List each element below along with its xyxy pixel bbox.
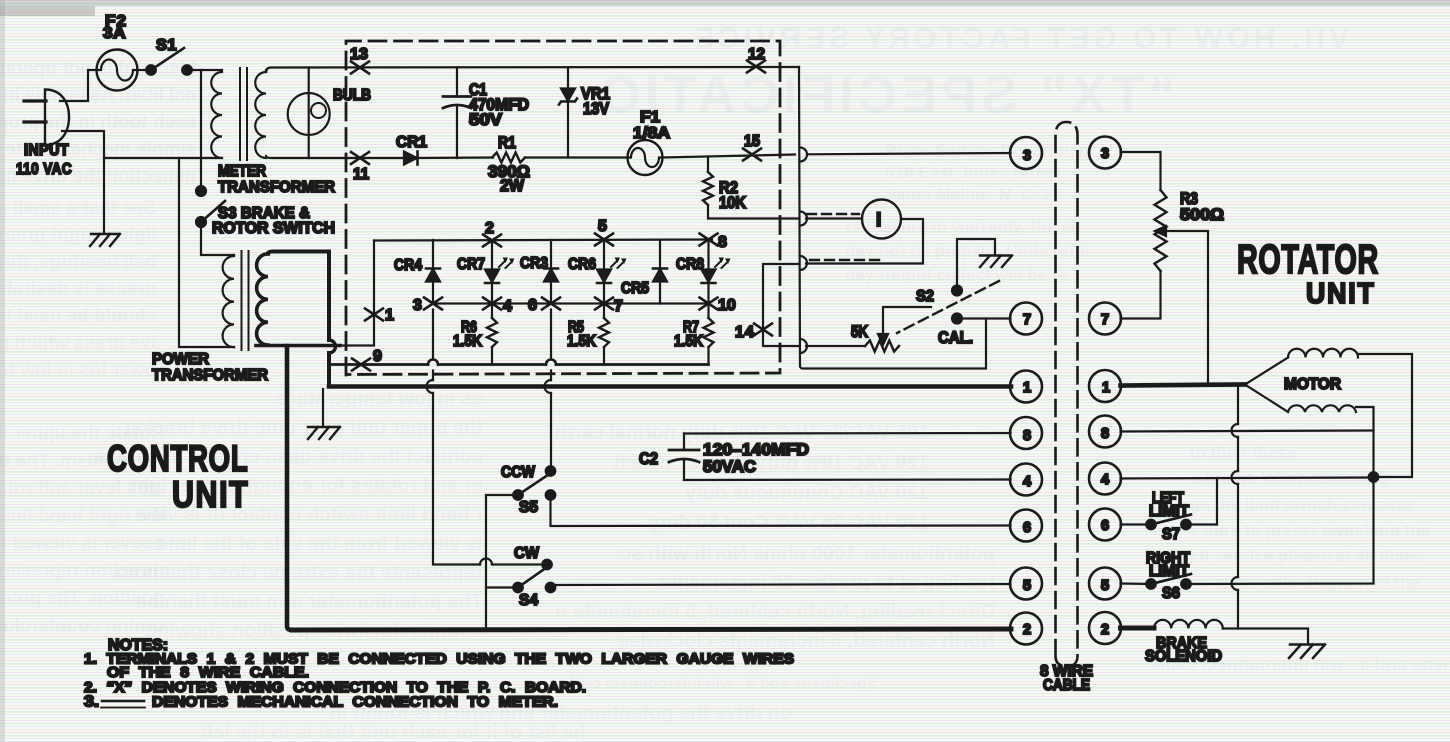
heavy bus terminal 1 right xyxy=(1121,385,1246,386)
switch S2 xyxy=(952,286,962,324)
wire terminal 8R to motor xyxy=(1121,431,1374,432)
heavy bus terminal 1 left xyxy=(329,384,1011,389)
resistor R2 xyxy=(703,156,799,218)
svg-text:3: 3 xyxy=(1023,148,1031,164)
ground input xyxy=(90,234,120,246)
svg-text:METER: METER xyxy=(218,163,266,180)
pcb node X3 xyxy=(424,298,442,310)
wire CCW vertical from X6 xyxy=(550,310,552,467)
svg-text:CW: CW xyxy=(514,545,540,562)
svg-text:3: 3 xyxy=(1101,146,1109,162)
wire meter left lead xyxy=(806,217,862,219)
hop bottom rail over CW vertical xyxy=(428,360,438,365)
svg-text:CR4: CR4 xyxy=(394,257,422,274)
label 1 xyxy=(385,307,394,324)
hop common vertical over 8 wire xyxy=(1232,424,1239,437)
resistor R5 xyxy=(599,304,609,365)
svg-text:8: 8 xyxy=(1023,428,1031,444)
ground stub bus1 xyxy=(322,389,324,427)
svg-text:6: 6 xyxy=(1023,520,1031,536)
label 13 xyxy=(350,46,368,63)
label CCW S5 xyxy=(501,464,538,516)
potentiometer 5K xyxy=(806,341,899,352)
svg-text:4: 4 xyxy=(1023,474,1031,490)
svg-text:5: 5 xyxy=(598,218,607,235)
hop CCW vertical over bus1 xyxy=(545,380,552,393)
brake solenoid coil xyxy=(1154,620,1308,644)
label I xyxy=(876,210,881,231)
svg-text:I: I xyxy=(876,210,881,231)
wire diode board top rail xyxy=(374,240,712,241)
svg-text:12: 12 xyxy=(748,46,765,63)
hop right vertical over 15 wire xyxy=(800,148,807,162)
ghost center-bottom text xyxy=(555,418,929,538)
svg-text:POWER: POWER xyxy=(152,351,209,368)
motor windings xyxy=(1245,349,1412,477)
heavy stub terminal 2R xyxy=(1121,626,1155,631)
wire terminal3R to R3 xyxy=(1121,152,1161,190)
svg-text:CAL.: CAL. xyxy=(938,329,973,347)
label F1 1/8A xyxy=(633,109,670,142)
label CR4 xyxy=(394,257,422,274)
wire terminal 5R to S6 xyxy=(1121,582,1152,585)
pcb node X5 xyxy=(595,234,613,246)
terminal circle R5t xyxy=(1089,568,1121,600)
ground S2 xyxy=(980,256,1012,268)
svg-text:8: 8 xyxy=(718,234,727,251)
wire plug neutral down xyxy=(62,131,104,232)
note 1 xyxy=(84,651,794,682)
label CR5 xyxy=(621,280,649,297)
cable capsule dashed xyxy=(1056,122,1078,667)
hop common vertical over 4 wire xyxy=(1232,471,1239,484)
label S2 xyxy=(916,288,934,305)
svg-text:2W: 2W xyxy=(500,177,524,195)
wire diode board bottom rail xyxy=(331,363,709,366)
svg-text:F1: F1 xyxy=(640,109,660,126)
label F2 3A xyxy=(103,13,127,42)
ghost bleed-through big title xyxy=(595,64,1175,126)
wire S5 common to return vertical xyxy=(486,495,518,628)
label INPUT 110 VAC xyxy=(16,142,72,178)
svg-text:120–140MFD: 120–140MFD xyxy=(703,441,809,459)
label R3 500ohm xyxy=(1180,190,1224,224)
meter transformer T2 primary xyxy=(211,70,222,158)
terminal circle R8 xyxy=(1089,416,1121,448)
svg-text:2: 2 xyxy=(485,220,494,237)
wire diode board middle rail xyxy=(433,302,709,304)
label R1 390ohm 2W xyxy=(488,134,530,195)
svg-text:1: 1 xyxy=(1102,380,1110,396)
label LEFT LIMIT S7 xyxy=(1149,490,1190,543)
terminal circle L4 xyxy=(1010,464,1042,496)
svg-text:110 VAC: 110 VAC xyxy=(16,161,72,178)
svg-text:S2: S2 xyxy=(916,288,934,305)
svg-text:CR1: CR1 xyxy=(396,134,427,151)
heavy bus terminal 2 left xyxy=(292,629,1011,630)
zener VR1 xyxy=(559,68,577,158)
svg-text:500Ω: 500Ω xyxy=(1180,206,1224,224)
pcb node X7 xyxy=(595,298,613,310)
pcb node X10 xyxy=(700,298,718,310)
label CONTROL UNIT xyxy=(107,437,249,516)
wire S2 ground branch xyxy=(957,239,995,286)
label 7 xyxy=(614,298,623,315)
terminal circle L1 xyxy=(1010,371,1042,403)
meter M1 xyxy=(862,200,901,239)
label 6 xyxy=(528,297,537,314)
label S1 xyxy=(156,37,177,54)
terminal circle R2t xyxy=(1089,612,1121,644)
svg-text:6: 6 xyxy=(528,297,537,314)
svg-text:TRANSFORMER: TRANSFORMER xyxy=(218,179,335,196)
label 4 xyxy=(503,298,512,315)
svg-text:7: 7 xyxy=(614,298,623,315)
wire F2 to S1 xyxy=(137,69,150,71)
label 5 xyxy=(598,218,607,235)
svg-text:C2: C2 xyxy=(639,450,658,468)
terminal circle R6t xyxy=(1089,509,1121,541)
svg-text:1.5K: 1.5K xyxy=(674,333,703,350)
pcb node X13 xyxy=(351,62,369,74)
label MOTOR xyxy=(1284,376,1341,393)
label C2 120-140MFD 50VAC xyxy=(639,441,809,476)
terminal circle R4 xyxy=(1089,463,1121,495)
PC board dashed border xyxy=(346,41,780,375)
svg-text:13V: 13V xyxy=(583,100,609,118)
svg-text:LIMIT: LIMIT xyxy=(1149,503,1190,520)
label 11 xyxy=(353,166,369,183)
terminal circle L5 xyxy=(1010,568,1042,600)
note 3 xyxy=(84,694,558,711)
pcb node X14 xyxy=(754,324,772,336)
wire X1 branch from secondary plate xyxy=(338,241,374,346)
label CR7 xyxy=(457,256,485,273)
svg-text:5: 5 xyxy=(1101,578,1109,594)
wire secondary top rail xyxy=(266,67,799,72)
switch S6 xyxy=(1146,574,1191,589)
AC plug P1 xyxy=(24,90,69,146)
svg-text:SOLENOID: SOLENOID xyxy=(1145,648,1222,665)
label 5K xyxy=(851,323,868,341)
svg-text:6: 6 xyxy=(1101,518,1109,534)
svg-text:S5: S5 xyxy=(519,499,538,516)
pcb node X12 xyxy=(747,61,765,73)
switch S4 CW xyxy=(513,560,555,593)
wire meter right loop xyxy=(806,219,923,264)
wiper arrow R3 xyxy=(1155,226,1166,236)
power transformer T1 secondary (heavy) xyxy=(257,254,268,345)
wire CAL contact to terminal 7 xyxy=(957,317,1011,319)
svg-text:3.: 3. xyxy=(84,694,99,711)
led CR7 xyxy=(485,240,499,304)
svg-text:CR6: CR6 xyxy=(568,256,596,273)
svg-text:15: 15 xyxy=(744,133,760,150)
wire S1 to meter transformer primary xyxy=(187,69,222,71)
svg-text:1/8A: 1/8A xyxy=(633,125,670,142)
svg-text:3: 3 xyxy=(413,297,422,314)
terminal circle L8 xyxy=(1010,417,1042,449)
label R7 1.5K xyxy=(674,319,703,350)
hop right vertical over R2 wire xyxy=(800,212,807,226)
wire terminal 4R to motor node xyxy=(1121,478,1374,479)
label S3 BRAKE & ROTOR SWITCH xyxy=(212,205,335,237)
svg-text:CR7: CR7 xyxy=(457,256,485,273)
switch S7 xyxy=(1146,515,1191,530)
svg-text:INPUT: INPUT xyxy=(24,142,69,159)
resistor R7 xyxy=(704,304,714,365)
wire rotator common vertical xyxy=(1237,385,1239,629)
fuse F1 xyxy=(628,140,663,175)
terminal circle R1 xyxy=(1089,370,1121,402)
svg-text:CCW: CCW xyxy=(501,464,536,481)
wire secondary bottom plate heavy xyxy=(256,344,340,348)
ghost left margin paragraphs xyxy=(0,55,196,190)
svg-text:ROTOR SWITCH: ROTOR SWITCH xyxy=(212,220,335,237)
note 2 xyxy=(84,679,586,696)
wire input lower run xyxy=(104,157,222,159)
svg-text:1: 1 xyxy=(385,307,394,324)
svg-text:7: 7 xyxy=(1101,312,1109,328)
svg-text:UNIT: UNIT xyxy=(1306,277,1376,309)
svg-text:10K: 10K xyxy=(719,194,746,212)
terminal circle R7 xyxy=(1089,303,1121,335)
svg-text:13: 13 xyxy=(350,46,368,63)
hop secondary vertical over bottom plate xyxy=(329,340,336,353)
pcb node X6 xyxy=(542,298,560,310)
wire S6 to motor node xyxy=(1186,477,1374,584)
svg-text:ROTATOR: ROTATOR xyxy=(1237,237,1379,282)
svg-text:1.5K: 1.5K xyxy=(453,333,482,350)
wire cal loop bottom xyxy=(800,319,986,369)
led arrows CR6 xyxy=(611,258,627,269)
wire 5K wiper xyxy=(883,307,931,336)
svg-text:3A: 3A xyxy=(103,25,126,42)
svg-text:10: 10 xyxy=(718,297,736,314)
svg-text:S4: S4 xyxy=(519,592,538,609)
pcb node X9 xyxy=(352,359,370,371)
wire plug hot to F2 xyxy=(60,70,96,101)
ghost bleed-through headline xyxy=(690,22,1349,56)
wire secondary vertical heavy to bus1 xyxy=(327,353,331,385)
terminal circle L6 xyxy=(1010,510,1042,542)
pcb connector block X14 xyxy=(763,264,799,346)
label BULB xyxy=(333,87,371,104)
svg-text:S7: S7 xyxy=(1162,526,1180,543)
meter transformer T2 secondary xyxy=(255,70,266,158)
capacitor C1 xyxy=(443,68,471,159)
terminal circle L7 xyxy=(1010,303,1042,335)
wire secondary top heavy to vertical xyxy=(268,252,329,341)
mech dashes meter upper xyxy=(807,213,859,215)
power transformer core xyxy=(242,251,249,350)
label 2 xyxy=(485,220,494,237)
wire input to primary bottom xyxy=(179,158,234,347)
switch S1 xyxy=(146,48,192,75)
wire R3 bottom to terminal 7R xyxy=(1121,271,1161,319)
resistor R6 xyxy=(487,304,497,365)
hop right vertical over meter dash wire xyxy=(800,256,807,270)
svg-text:1.5K: 1.5K xyxy=(567,333,596,350)
diode CR1 xyxy=(404,152,418,165)
wire S4 common to return vertical xyxy=(486,586,518,588)
fuse F2 xyxy=(97,50,138,91)
label 14 xyxy=(735,324,755,341)
pcb node X8 xyxy=(700,234,718,246)
wire S4 throw to terminal 5 xyxy=(551,584,1011,588)
svg-text:CR3: CR3 xyxy=(520,255,548,272)
label R6 1.5K xyxy=(453,319,482,350)
svg-text:9: 9 xyxy=(373,348,382,365)
label CR3 xyxy=(520,255,548,272)
label CAL. xyxy=(938,329,973,347)
bulb DS1 xyxy=(288,68,330,159)
svg-text:50V: 50V xyxy=(469,111,502,129)
svg-text:1: 1 xyxy=(1023,380,1031,396)
wire R3 wiper to bus xyxy=(1165,231,1208,384)
svg-text:2: 2 xyxy=(1023,622,1031,638)
svg-text:DENOTES MECHANICAL CONNECTION: DENOTES MECHANICAL CONNECTION TO METER. xyxy=(152,694,558,711)
svg-text:CABLE: CABLE xyxy=(1043,677,1090,694)
wire S1 node down to S3 xyxy=(200,70,202,189)
label R2 10K xyxy=(719,179,746,212)
pcb node X15 xyxy=(743,149,761,161)
svg-text:CR5: CR5 xyxy=(621,280,649,297)
label CR1 xyxy=(396,134,427,151)
label 3 xyxy=(413,297,422,314)
wire terminal 8 rail xyxy=(684,432,1011,435)
pcb node X1 xyxy=(365,309,383,321)
ghost right column address xyxy=(885,140,1095,206)
label ROTATOR UNIT xyxy=(1237,237,1379,309)
switch S5 CCW xyxy=(513,466,555,500)
wire CR1 to F1 xyxy=(418,156,629,159)
label 8 WIRE CABLE xyxy=(1040,663,1093,694)
label 12 xyxy=(748,46,765,63)
label CW S4 xyxy=(514,545,540,609)
terminal circle R3 xyxy=(1089,137,1121,169)
svg-text:S6: S6 xyxy=(1162,585,1180,602)
led CR8 xyxy=(702,240,716,304)
ground brake xyxy=(1289,645,1325,659)
switch S2 arm dashed xyxy=(897,281,999,333)
wire terminal 4 rail xyxy=(684,478,1011,481)
svg-text:14: 14 xyxy=(735,324,755,341)
wire top rail corner down right side xyxy=(799,67,800,367)
pcb node X4 xyxy=(483,298,501,310)
svg-text:UNIT: UNIT xyxy=(172,474,249,516)
svg-text:5K: 5K xyxy=(851,323,868,341)
power transformer T1 primary xyxy=(223,255,234,347)
capacitor C2 xyxy=(669,434,699,481)
diode CR5 xyxy=(653,240,667,304)
wire S3 to power transformer primary xyxy=(201,222,234,255)
label 10 xyxy=(718,297,736,314)
ghost right lower column xyxy=(1190,440,1430,596)
potentiometer R3 xyxy=(1155,190,1167,271)
pcb node X2 xyxy=(483,235,501,247)
led arrows CR8 xyxy=(715,258,731,269)
label RIGHT LIMIT S6 xyxy=(1146,550,1190,602)
wire S7 branch vertical xyxy=(1190,478,1217,525)
svg-text:BULB: BULB xyxy=(333,87,371,104)
led CR6 xyxy=(597,240,611,304)
label BRAKE SOLENOID xyxy=(1145,635,1222,665)
svg-text:LIMIT: LIMIT xyxy=(1149,563,1190,580)
ground bus1 xyxy=(308,427,340,439)
svg-text:CONTROL: CONTROL xyxy=(107,437,248,479)
svg-text:CR8: CR8 xyxy=(676,256,704,273)
svg-text:8: 8 xyxy=(1101,426,1109,442)
wire secondary bottom vertical heavy to bus2 xyxy=(287,346,292,630)
label METER TRANSFORMER xyxy=(218,163,335,196)
wire S5 throw to terminal 6 xyxy=(551,495,1011,526)
hop CW vertical over bus1 xyxy=(427,380,434,393)
svg-text:50VAC: 50VAC xyxy=(703,458,756,476)
svg-text:S1: S1 xyxy=(156,37,177,54)
svg-text:5: 5 xyxy=(1023,578,1031,594)
wiper arrow 5K xyxy=(878,334,888,345)
label CR8 xyxy=(676,256,704,273)
diode CR3 xyxy=(544,240,558,304)
svg-text:7: 7 xyxy=(1023,312,1031,328)
svg-text:2: 2 xyxy=(1101,622,1109,638)
hop common vertical over S6 wire xyxy=(1232,577,1239,590)
hop bottom rail over CCW vertical xyxy=(546,360,556,365)
wire secondary bottom rail xyxy=(266,156,404,158)
terminal circle L3 xyxy=(1010,137,1042,169)
svg-text:MOTOR: MOTOR xyxy=(1284,376,1341,393)
led arrows CR7 xyxy=(499,258,515,269)
label C1 470MFD 50V xyxy=(469,81,529,129)
junction motor node xyxy=(1369,472,1379,482)
hop right vertical over 5K wire xyxy=(800,339,807,353)
svg-text:11: 11 xyxy=(353,166,369,183)
label VR1 13V xyxy=(581,85,610,118)
label CR6 xyxy=(568,256,596,273)
mech dashes meter lower xyxy=(810,259,884,261)
scan edge shading xyxy=(0,0,1450,6)
label 9 xyxy=(373,348,382,365)
svg-text:4: 4 xyxy=(1101,472,1109,488)
pcb node X11 xyxy=(351,152,369,164)
resistor R1 xyxy=(492,153,525,163)
label NOTES xyxy=(108,637,168,654)
svg-text:4: 4 xyxy=(503,298,512,315)
label 15 xyxy=(744,133,760,150)
diode CR4 xyxy=(426,240,440,304)
hop CW horizontal over S-common vertical xyxy=(480,559,492,565)
svg-text:TRANSFORMER: TRANSFORMER xyxy=(152,367,268,384)
wire terminal 6R to S7 xyxy=(1121,523,1152,525)
terminal circle L2 xyxy=(1010,613,1042,645)
label 8 xyxy=(718,234,727,251)
meter transformer core xyxy=(240,68,247,160)
switch S3 xyxy=(196,186,225,227)
label POWER TRANSFORMER xyxy=(152,351,268,384)
label R5 1.5K xyxy=(567,319,596,350)
svg-text:R1: R1 xyxy=(498,134,516,152)
wire CW vertical from X3 xyxy=(433,310,540,565)
wire F1 to terminal 3 xyxy=(662,153,1011,158)
